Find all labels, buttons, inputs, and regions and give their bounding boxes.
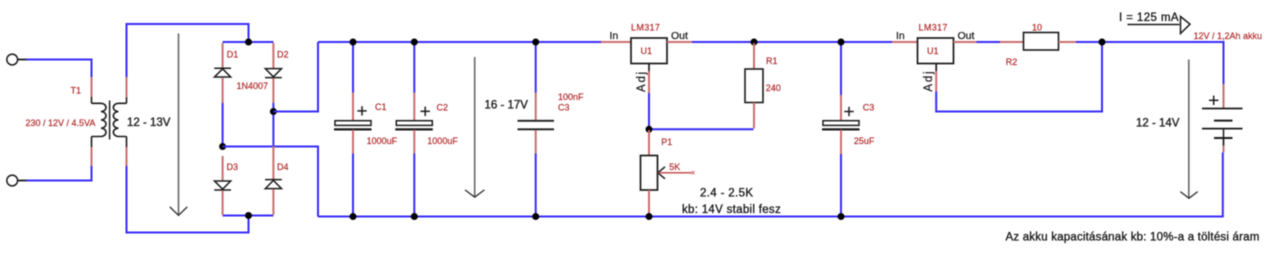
svg-text:R1: R1	[766, 56, 778, 66]
wire U2 Adj pin	[935, 64, 937, 72]
node C1 bottom junction	[350, 213, 357, 220]
node Adj1 junction	[646, 126, 653, 133]
node P1 bottom junction	[646, 213, 653, 220]
wire node N to bottom rail	[223, 147, 318, 217]
svg-text:1000uF: 1000uF	[427, 136, 458, 146]
wire T1 secondary top to AC1	[127, 24, 249, 77]
svg-text:D3: D3	[227, 162, 239, 172]
svg-text:100nF: 100nF	[558, 92, 584, 102]
svg-text:T1: T1	[71, 86, 82, 96]
svg-text:kb: 14V stabil fesz: kb: 14V stabil fesz	[682, 204, 781, 216]
wire U2 Adj feedback	[936, 42, 1102, 112]
svg-text:R2: R2	[1006, 57, 1018, 67]
svg-text:12 - 14V: 12 - 14V	[1136, 118, 1180, 130]
wire AC2 horizontal	[223, 215, 274, 217]
potentiometer P1	[641, 156, 658, 191]
wire U2 Out stub	[954, 41, 977, 43]
capacitor C2	[395, 42, 433, 217]
wire P1 bottom stub	[648, 190, 650, 216]
resistor R2	[1024, 33, 1059, 51]
wire battery top stub	[1223, 84, 1225, 108]
node C2 top junction	[411, 39, 418, 46]
capacitor C3 100nF	[518, 42, 555, 217]
svg-text:1N4007: 1N4007	[237, 81, 269, 91]
node R1 top junction	[751, 39, 758, 46]
wire P1 top stub	[648, 130, 650, 156]
wire node P to top rail	[273, 42, 318, 112]
svg-text:D1: D1	[227, 50, 239, 60]
svg-text:C2: C2	[437, 103, 449, 113]
wire top rail mid	[692, 41, 892, 43]
capacitor C1	[334, 42, 372, 217]
P1 wiper arrow	[658, 167, 665, 179]
wire pin stub T1 secondary top	[126, 77, 128, 98]
wire stub U1 In	[601, 41, 631, 43]
node C3 25uF top junction	[838, 39, 845, 46]
svg-text:Adj: Adj	[636, 70, 648, 92]
svg-text:P1: P1	[661, 137, 672, 147]
wire U1 Adj pin	[648, 64, 650, 72]
node N junction	[219, 143, 226, 150]
resistor R1	[745, 69, 763, 103]
svg-text:12V / 1,2Ah akku: 12V / 1,2Ah akku	[1194, 31, 1263, 41]
svg-text:10: 10	[1032, 23, 1042, 33]
svg-text:U1: U1	[927, 46, 939, 56]
op-amp U2 LM317 box	[918, 38, 954, 64]
diode D2	[265, 69, 282, 78]
node AC1 junction	[245, 39, 252, 46]
wire R1 top stub	[753, 43, 755, 69]
wire Adj1 to R1 bottom	[649, 128, 754, 130]
wire battery bottom stub	[1223, 146, 1225, 153]
svg-text:In: In	[610, 30, 619, 42]
diode D1	[214, 68, 231, 77]
wire D2 bottom to node P	[272, 78, 274, 103]
wire top rail	[318, 41, 601, 43]
svg-text:C3: C3	[558, 103, 570, 113]
svg-text:16 - 17V: 16 - 17V	[485, 99, 529, 111]
wire U1 Out stub	[667, 41, 692, 43]
diode D4	[265, 180, 282, 189]
current arrow 16-17V	[465, 57, 484, 197]
node C1 top junction	[350, 39, 357, 46]
wire R2 right stub	[1059, 41, 1077, 43]
svg-text:12 - 13V: 12 - 13V	[127, 117, 171, 129]
wire J1 to T1 primary top	[26, 60, 92, 78]
wire J2 to T1 primary bottom	[26, 166, 92, 181]
wire pin stub T1 primary top	[91, 77, 93, 98]
node C3 100nF bottom junction	[532, 213, 539, 220]
current arrow 12-13V loop	[170, 34, 188, 216]
wire stub D3 top	[222, 156, 224, 181]
diode D3	[214, 181, 231, 190]
svg-text:C3: C3	[863, 103, 875, 113]
wire D4 bottom	[272, 189, 274, 215]
wire Out2 to R2	[977, 41, 1001, 43]
current arrow I=125mA	[1128, 17, 1191, 34]
svg-text:1000uF: 1000uF	[367, 136, 398, 146]
current arrow battery	[1180, 60, 1197, 199]
svg-text:D2: D2	[277, 50, 289, 60]
wire R2 to battery top	[1076, 42, 1224, 84]
node C2 bottom junction	[411, 213, 418, 220]
wire D1 bottom	[222, 78, 224, 104]
svg-text:Adj: Adj	[923, 70, 935, 92]
svg-text:Az akku kapacitásának kb: 10%-: Az akku kapacitásának kb: 10%-a a töltés…	[1006, 232, 1260, 244]
capacitor C3 25uF	[822, 42, 860, 217]
svg-text:In: In	[896, 30, 905, 42]
svg-text:LM317: LM317	[631, 23, 660, 33]
wire bottom rail	[318, 153, 1223, 217]
svg-text:D4: D4	[277, 162, 289, 172]
wire pin stub T1 primary bottom	[91, 147, 93, 166]
wire stub D2 top	[272, 43, 274, 69]
op-amp U1 LM317 box	[631, 38, 667, 64]
svg-text:240: 240	[766, 83, 781, 93]
svg-text:C1: C1	[375, 102, 387, 112]
svg-text:230 / 12V / 4.5VA: 230 / 12V / 4.5VA	[26, 118, 96, 128]
node C3 100nF top junction	[532, 39, 539, 46]
wire D3 bottom	[222, 191, 224, 216]
svg-text:25uF: 25uF	[854, 136, 875, 146]
node P junction	[270, 108, 277, 115]
wire stub U2 In	[892, 41, 918, 43]
svg-text:Out: Out	[958, 30, 975, 42]
svg-text:I = 125 mA: I = 125 mA	[1119, 12, 1179, 24]
wire R1 bottom stub	[753, 103, 755, 129]
node AC2 junction	[245, 212, 252, 219]
svg-text:U1: U1	[641, 46, 653, 56]
svg-text:Out: Out	[671, 30, 688, 42]
node C3 25uF bottom junction	[838, 213, 845, 220]
svg-text:5K: 5K	[669, 162, 680, 172]
transformer T1	[92, 97, 127, 147]
wire pin stub T1 secondary bottom	[126, 147, 128, 166]
svg-text:2.4 - 2.5K: 2.4 - 2.5K	[700, 188, 753, 200]
terminal J2	[7, 175, 26, 186]
wire stub D1 top	[222, 43, 224, 68]
wire R2 left stub	[1000, 41, 1024, 43]
wire stub D4 top	[272, 146, 274, 180]
terminal J1	[7, 54, 26, 65]
wire T1 secondary bottom to AC2	[127, 166, 249, 233]
svg-text:LM317: LM317	[919, 23, 948, 33]
node feedback junction	[1099, 39, 1106, 46]
wire AC1 horizontal	[223, 41, 274, 43]
battery B1	[1202, 96, 1243, 146]
